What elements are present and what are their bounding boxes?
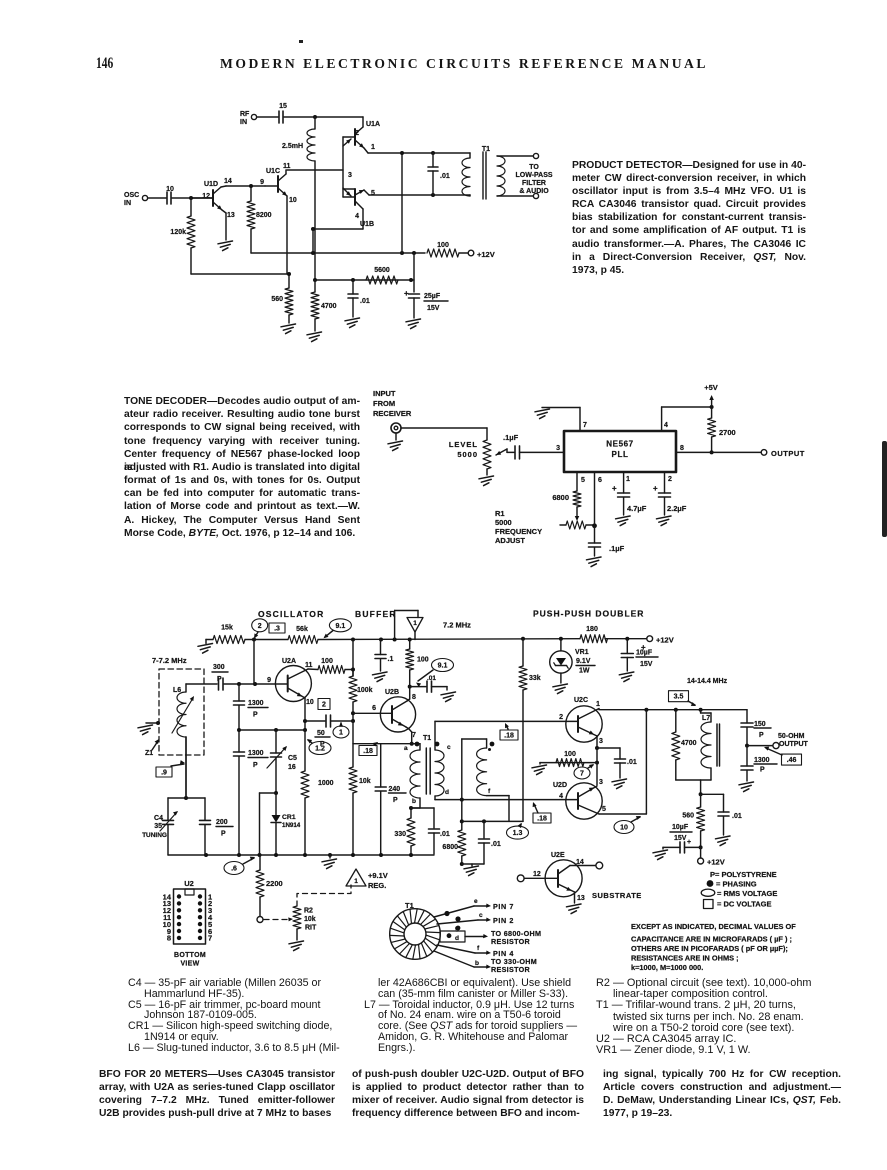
svg-text:IN: IN: [240, 119, 247, 126]
svg-text:+: +: [653, 484, 658, 493]
svg-text:OSC: OSC: [124, 192, 139, 199]
svg-text:10µF: 10µF: [636, 650, 653, 657]
svg-text:560: 560: [682, 813, 694, 820]
svg-text:15V: 15V: [674, 835, 687, 842]
svg-text:P= POLYSTYRENE: P= POLYSTYRENE: [710, 870, 777, 879]
svg-text:100: 100: [417, 657, 429, 664]
svg-text:1: 1: [339, 730, 343, 737]
svg-text:1: 1: [626, 476, 630, 483]
svg-text:330: 330: [394, 831, 406, 838]
svg-text:10: 10: [620, 825, 628, 832]
svg-text:16: 16: [288, 764, 296, 771]
svg-text:f: f: [488, 788, 491, 795]
svg-text:P: P: [760, 767, 765, 774]
svg-text:U1D: U1D: [204, 181, 218, 188]
svg-text:U2D: U2D: [553, 782, 567, 789]
svg-text:+: +: [687, 839, 691, 846]
svg-text:P: P: [221, 831, 226, 838]
svg-text:RF: RF: [240, 111, 250, 118]
svg-text:U2A: U2A: [282, 658, 296, 665]
svg-text:4.7µF: 4.7µF: [627, 504, 647, 513]
svg-text:6800: 6800: [442, 844, 458, 851]
svg-text:R1: R1: [495, 509, 505, 518]
svg-text:.01: .01: [732, 813, 742, 820]
svg-text:1: 1: [413, 620, 417, 627]
svg-text:15V: 15V: [640, 661, 653, 668]
svg-text:5000: 5000: [495, 518, 512, 527]
svg-text:+9.1V: +9.1V: [368, 871, 388, 880]
svg-text:5: 5: [602, 806, 606, 813]
svg-text:240: 240: [389, 786, 401, 793]
svg-text:7.2 MHz: 7.2 MHz: [443, 621, 471, 630]
svg-text:3: 3: [348, 172, 352, 179]
svg-text:& AUDIO: & AUDIO: [519, 188, 549, 195]
svg-text:= RMS VOLTAGE: = RMS VOLTAGE: [717, 889, 777, 898]
svg-text:5000: 5000: [457, 450, 478, 459]
svg-text:T1: T1: [405, 901, 414, 910]
svg-text:.01: .01: [427, 675, 436, 682]
svg-text:RESISTANCES ARE IN OHMS ;: RESISTANCES ARE IN OHMS ;: [631, 954, 739, 963]
svg-text:560: 560: [271, 296, 283, 303]
svg-text:+12V: +12V: [477, 250, 495, 259]
svg-text:U1C: U1C: [266, 168, 280, 175]
svg-text:6: 6: [598, 477, 602, 484]
svg-text:U1A: U1A: [366, 121, 380, 128]
svg-text:C5: C5: [288, 755, 297, 762]
svg-text:1: 1: [596, 701, 600, 708]
svg-text:13: 13: [577, 895, 585, 902]
svg-text:P: P: [759, 732, 764, 739]
svg-text:.9: .9: [161, 770, 167, 777]
svg-text:+12V: +12V: [656, 636, 674, 645]
svg-text:RESISTOR: RESISTOR: [491, 937, 531, 946]
svg-text:PIN 7: PIN 7: [493, 902, 514, 911]
svg-text:e: e: [474, 898, 478, 905]
svg-text:2: 2: [559, 714, 563, 721]
svg-text:P: P: [253, 762, 258, 769]
svg-text:OUTPUT: OUTPUT: [771, 449, 805, 458]
svg-text:1.3: 1.3: [513, 830, 523, 837]
svg-text:.01: .01: [627, 759, 637, 766]
svg-text:c: c: [479, 912, 483, 919]
svg-text:35: 35: [154, 823, 162, 830]
svg-text:12: 12: [533, 871, 541, 878]
svg-text:2.2µF: 2.2µF: [667, 504, 687, 513]
svg-text:56k: 56k: [296, 626, 308, 633]
svg-text:+: +: [612, 484, 617, 493]
svg-text:1: 1: [354, 878, 358, 885]
svg-text:.46: .46: [787, 757, 797, 764]
svg-text:PLL: PLL: [612, 450, 629, 459]
svg-text:120k: 120k: [170, 229, 186, 236]
svg-text:U2E: U2E: [551, 852, 565, 859]
svg-text:c: c: [447, 744, 451, 751]
svg-text:U1B: U1B: [360, 221, 374, 228]
svg-text:6: 6: [372, 705, 376, 712]
svg-text:Z1: Z1: [145, 750, 153, 757]
svg-text:k=1000, M=1000 000.: k=1000, M=1000 000.: [631, 963, 703, 972]
svg-text:100: 100: [437, 242, 449, 249]
svg-text:T1: T1: [423, 735, 431, 742]
svg-text:.18: .18: [537, 816, 547, 823]
svg-text:5: 5: [371, 190, 375, 197]
svg-text:7-7.2 MHz: 7-7.2 MHz: [152, 656, 187, 665]
svg-text:b: b: [412, 798, 416, 805]
svg-text:TUNING: TUNING: [142, 832, 167, 839]
svg-text:d: d: [455, 935, 459, 942]
svg-text:+5V: +5V: [704, 383, 718, 392]
svg-text:100k: 100k: [357, 687, 373, 694]
svg-text:4: 4: [559, 793, 563, 800]
svg-text:25µF: 25µF: [424, 293, 441, 300]
svg-text:5600: 5600: [374, 267, 390, 274]
svg-text:.01: .01: [360, 298, 370, 305]
svg-text:15k: 15k: [221, 625, 233, 632]
svg-text:5: 5: [581, 477, 585, 484]
svg-text:IN: IN: [124, 200, 131, 207]
svg-text:3: 3: [599, 738, 603, 745]
svg-text:L7: L7: [702, 715, 710, 722]
svg-text:2: 2: [668, 476, 672, 483]
svg-text:P: P: [393, 797, 398, 804]
svg-text:1N914: 1N914: [282, 822, 301, 829]
svg-text:.3: .3: [274, 626, 280, 633]
svg-text:.1µF: .1µF: [503, 433, 519, 442]
svg-text:12: 12: [202, 193, 210, 200]
svg-text:8200: 8200: [256, 212, 272, 219]
svg-text:.6: .6: [231, 866, 237, 873]
svg-text:FROM: FROM: [373, 399, 395, 408]
svg-text:4: 4: [355, 213, 359, 220]
svg-text:15V: 15V: [427, 305, 440, 312]
svg-text:3: 3: [599, 779, 603, 786]
svg-text:8: 8: [680, 445, 684, 452]
svg-text:10µF: 10µF: [672, 824, 689, 831]
svg-text:10k: 10k: [359, 778, 371, 785]
svg-text:2: 2: [322, 702, 326, 709]
svg-text:7: 7: [208, 934, 212, 943]
svg-text:b: b: [475, 960, 479, 967]
svg-text:OSCILLATOR: OSCILLATOR: [258, 609, 324, 619]
svg-text:7: 7: [583, 422, 587, 429]
svg-text:TO: TO: [529, 164, 539, 171]
svg-text:RIT: RIT: [305, 925, 317, 932]
svg-text:9.1V: 9.1V: [576, 658, 591, 665]
svg-text:50: 50: [317, 730, 325, 737]
svg-text:PUSH-PUSH DOUBLER: PUSH-PUSH DOUBLER: [533, 609, 644, 619]
svg-text:SUBSTRATE: SUBSTRATE: [592, 891, 642, 900]
svg-text:U2: U2: [184, 879, 194, 888]
svg-text:100: 100: [321, 658, 333, 665]
svg-text:.01: .01: [440, 173, 450, 180]
svg-text:EXCEPT AS INDICATED, DECIMAL V: EXCEPT AS INDICATED, DECIMAL VALUES OF: [631, 922, 796, 931]
svg-text:BOTTOM: BOTTOM: [174, 952, 206, 959]
svg-text:14-14.4 MHz: 14-14.4 MHz: [687, 678, 728, 685]
svg-text:INPUT: INPUT: [373, 389, 396, 398]
svg-text:3: 3: [556, 445, 560, 452]
svg-text:U2C: U2C: [574, 697, 588, 704]
svg-text:LEVEL: LEVEL: [449, 440, 478, 449]
svg-text:2.5mH: 2.5mH: [282, 143, 303, 150]
svg-text:150: 150: [754, 721, 766, 728]
svg-text:1300: 1300: [754, 757, 770, 764]
svg-text:.01: .01: [491, 841, 501, 848]
svg-text:50-OHM: 50-OHM: [778, 733, 805, 740]
svg-text:VIEW: VIEW: [180, 961, 199, 968]
svg-text:.1µF: .1µF: [609, 544, 625, 553]
svg-text:NE567: NE567: [606, 440, 633, 449]
svg-text:FREQUENCY: FREQUENCY: [495, 527, 542, 536]
svg-text:C4: C4: [154, 815, 163, 822]
svg-text:LOW-PASS: LOW-PASS: [515, 172, 552, 179]
svg-text:10: 10: [306, 699, 314, 706]
svg-text:8: 8: [412, 694, 416, 701]
svg-text:VR1: VR1: [575, 649, 589, 656]
svg-text:P: P: [217, 676, 222, 683]
svg-text:4700: 4700: [321, 303, 337, 310]
svg-text:15: 15: [279, 103, 287, 110]
svg-text:.1: .1: [388, 656, 394, 663]
svg-text:.01: .01: [440, 831, 450, 838]
svg-text:R2: R2: [304, 908, 313, 915]
svg-text:2200: 2200: [266, 879, 283, 888]
svg-text:9.1: 9.1: [336, 623, 346, 630]
svg-text:BUFFER: BUFFER: [355, 609, 397, 619]
svg-text:.18: .18: [363, 748, 373, 755]
svg-text:10: 10: [289, 197, 297, 204]
svg-text:7: 7: [412, 732, 416, 739]
svg-text:100: 100: [564, 751, 576, 758]
svg-text:1.2: 1.2: [315, 746, 325, 753]
svg-text:200: 200: [216, 819, 228, 826]
svg-text:CR1: CR1: [282, 814, 296, 821]
svg-text:11: 11: [283, 163, 291, 170]
svg-text:+12V: +12V: [707, 858, 725, 867]
svg-text:1W: 1W: [579, 668, 590, 675]
svg-text:ADJUST: ADJUST: [495, 536, 525, 545]
svg-text:9: 9: [260, 179, 264, 186]
svg-text:300: 300: [213, 664, 225, 671]
svg-text:2: 2: [258, 623, 262, 630]
svg-text:= DC VOLTAGE: = DC VOLTAGE: [717, 900, 772, 909]
svg-text:9.1: 9.1: [438, 663, 448, 670]
svg-text:U2B: U2B: [385, 689, 399, 696]
svg-text:7: 7: [580, 771, 584, 778]
svg-text:1300: 1300: [248, 750, 264, 757]
svg-text:a: a: [404, 745, 408, 752]
svg-text:OUTPUT: OUTPUT: [779, 741, 809, 748]
svg-text:4: 4: [664, 422, 668, 429]
svg-text:1000: 1000: [318, 780, 334, 787]
svg-text:11: 11: [305, 662, 313, 669]
svg-text:REG.: REG.: [368, 881, 386, 890]
svg-text:.18: .18: [504, 733, 514, 740]
svg-text:14: 14: [576, 859, 584, 866]
svg-text:1300: 1300: [248, 700, 264, 707]
svg-text:RESISTOR: RESISTOR: [491, 965, 531, 974]
svg-text:P: P: [253, 712, 258, 719]
svg-text:13: 13: [227, 212, 235, 219]
svg-text:+: +: [404, 289, 409, 298]
svg-text:8: 8: [167, 934, 171, 943]
svg-text:10k: 10k: [304, 916, 316, 923]
svg-text:f: f: [477, 945, 480, 952]
svg-text:3.5: 3.5: [674, 694, 684, 701]
svg-text:OTHERS ARE IN PICOFARADS ( pF: OTHERS ARE IN PICOFARADS ( pF OR µµF);: [631, 944, 788, 953]
svg-text:d: d: [445, 789, 449, 796]
svg-text:4700: 4700: [681, 740, 697, 747]
svg-text:6800: 6800: [552, 493, 569, 502]
svg-text:180: 180: [586, 626, 598, 633]
svg-text:14: 14: [224, 178, 232, 185]
svg-text:RECEIVER: RECEIVER: [373, 409, 412, 418]
svg-text:1: 1: [371, 144, 375, 151]
svg-text:T1: T1: [482, 146, 490, 153]
svg-text:2700: 2700: [719, 428, 736, 437]
svg-text:33k: 33k: [529, 675, 541, 682]
svg-text:CAPACITANCE ARE IN MICROFARADS: CAPACITANCE ARE IN MICROFARADS ( µF ) ;: [631, 935, 792, 944]
svg-text:9: 9: [267, 677, 271, 684]
svg-text:10: 10: [166, 186, 174, 193]
svg-text:PIN 2: PIN 2: [493, 916, 514, 925]
svg-text:FILTER: FILTER: [522, 180, 546, 187]
svg-text:2: 2: [355, 130, 359, 137]
svg-text:= PHASING: = PHASING: [716, 880, 757, 889]
